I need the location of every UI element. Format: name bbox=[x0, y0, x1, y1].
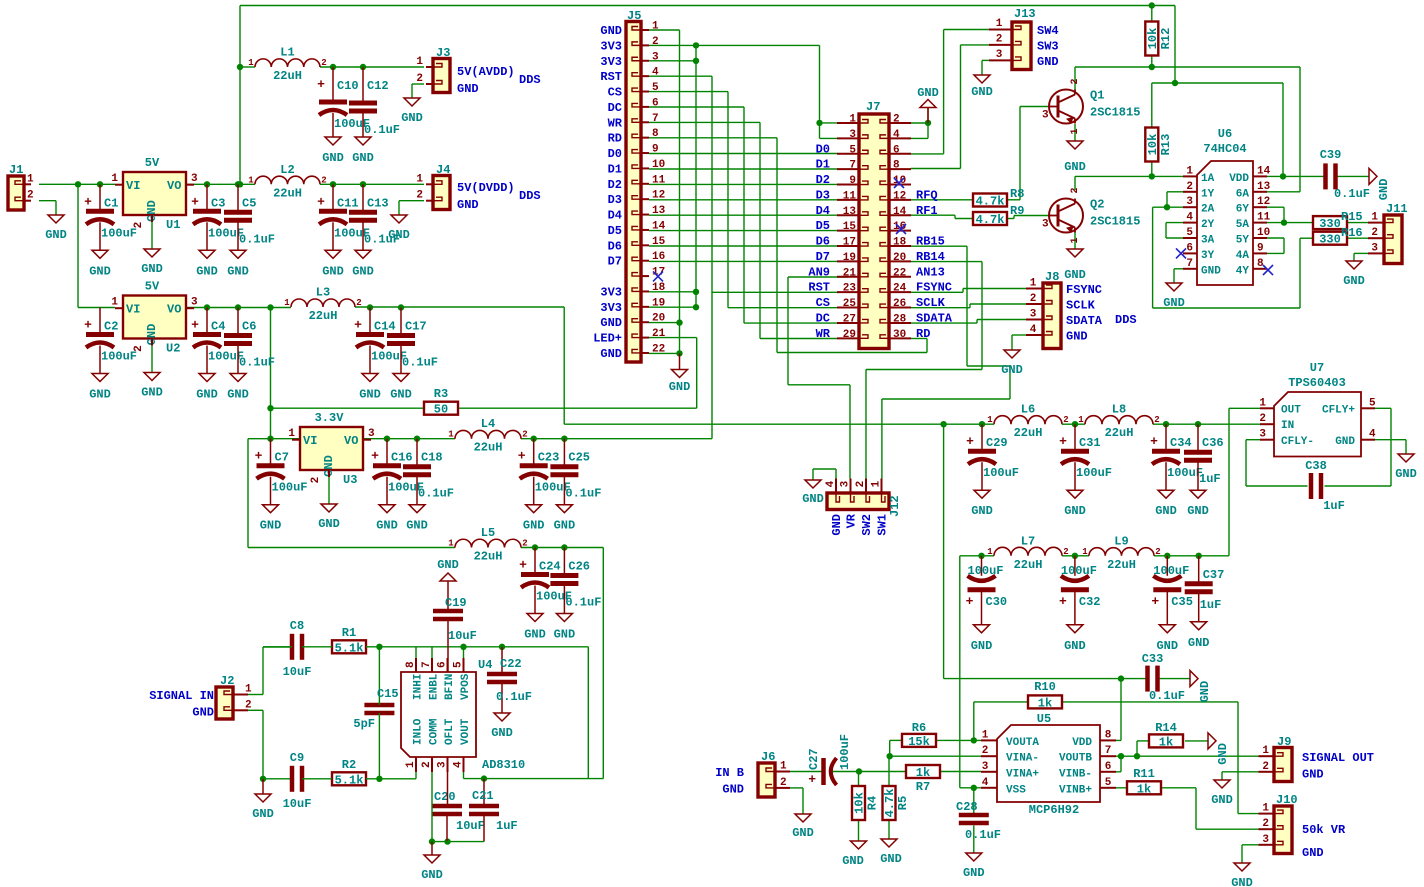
svg-text:C35: C35 bbox=[1171, 595, 1193, 609]
svg-text:J2: J2 bbox=[220, 674, 234, 688]
svg-text:GND: GND bbox=[1163, 296, 1185, 310]
svg-text:2: 2 bbox=[1155, 547, 1160, 557]
svg-text:C3: C3 bbox=[211, 196, 225, 210]
svg-text:+: + bbox=[1059, 594, 1067, 609]
svg-text:C28: C28 bbox=[956, 800, 978, 814]
svg-text:R1: R1 bbox=[342, 626, 356, 640]
svg-text:1A: 1A bbox=[1201, 173, 1215, 185]
svg-text:4: 4 bbox=[1030, 324, 1037, 336]
svg-text:3: 3 bbox=[1042, 110, 1049, 122]
svg-text:Q1: Q1 bbox=[1090, 89, 1104, 103]
svg-text:5: 5 bbox=[1369, 397, 1376, 409]
svg-text:2: 2 bbox=[321, 58, 326, 68]
svg-text:3: 3 bbox=[368, 428, 375, 440]
svg-text:2: 2 bbox=[1262, 818, 1269, 830]
svg-text:SCLK: SCLK bbox=[1066, 299, 1096, 313]
svg-text:+: + bbox=[255, 449, 263, 464]
svg-text:GND: GND bbox=[141, 386, 163, 400]
svg-text:2: 2 bbox=[1186, 181, 1193, 193]
svg-text:12: 12 bbox=[1257, 196, 1270, 208]
svg-text:BFIN: BFIN bbox=[444, 674, 456, 700]
svg-text:24: 24 bbox=[893, 283, 907, 295]
svg-text:12: 12 bbox=[893, 190, 906, 202]
svg-text:1: 1 bbox=[1070, 237, 1081, 243]
svg-text:1uF: 1uF bbox=[1199, 472, 1221, 486]
svg-text:4: 4 bbox=[825, 480, 837, 487]
svg-text:VINA+: VINA+ bbox=[1006, 768, 1039, 780]
svg-text:GND: GND bbox=[1343, 274, 1365, 288]
svg-text:GND: GND bbox=[196, 264, 218, 278]
svg-text:J7: J7 bbox=[866, 100, 880, 114]
svg-text:GND: GND bbox=[322, 151, 344, 165]
svg-text:C32: C32 bbox=[1079, 595, 1101, 609]
svg-text:0.1uF: 0.1uF bbox=[239, 232, 275, 246]
svg-text:18: 18 bbox=[652, 282, 666, 294]
svg-text:GND: GND bbox=[192, 706, 214, 720]
svg-text:2: 2 bbox=[1154, 415, 1159, 425]
svg-text:5.1k: 5.1k bbox=[335, 641, 364, 655]
svg-text:C20: C20 bbox=[434, 790, 456, 804]
svg-text:22uH: 22uH bbox=[273, 186, 302, 200]
svg-text:25: 25 bbox=[843, 298, 857, 310]
svg-text:GND: GND bbox=[1395, 467, 1417, 481]
svg-text:CFLY+: CFLY+ bbox=[1322, 405, 1355, 417]
svg-text:6: 6 bbox=[437, 661, 449, 668]
svg-text:22uH: 22uH bbox=[474, 441, 503, 455]
svg-text:5V: 5V bbox=[145, 156, 160, 170]
svg-text:C24: C24 bbox=[539, 560, 561, 574]
svg-text:3V3: 3V3 bbox=[600, 55, 622, 69]
svg-text:C13: C13 bbox=[367, 196, 389, 210]
svg-text:GND: GND bbox=[260, 519, 282, 533]
svg-text:GND: GND bbox=[1198, 681, 1212, 703]
svg-text:10k: 10k bbox=[1146, 134, 1160, 156]
svg-text:22uH: 22uH bbox=[1014, 426, 1043, 440]
svg-text:3: 3 bbox=[1042, 219, 1049, 231]
svg-text:GND: GND bbox=[554, 628, 576, 642]
svg-text:2: 2 bbox=[416, 190, 423, 202]
svg-text:9: 9 bbox=[849, 175, 856, 187]
svg-text:C21: C21 bbox=[472, 789, 494, 803]
svg-text:1: 1 bbox=[996, 18, 1003, 30]
svg-text:0.1uF: 0.1uF bbox=[364, 123, 400, 137]
svg-text:3: 3 bbox=[840, 480, 852, 487]
svg-text:6: 6 bbox=[893, 144, 900, 156]
svg-text:C36: C36 bbox=[1202, 436, 1224, 450]
svg-text:GND: GND bbox=[1066, 330, 1088, 344]
svg-text:3: 3 bbox=[996, 49, 1003, 61]
svg-text:GND: GND bbox=[1188, 636, 1210, 650]
svg-text:RB15: RB15 bbox=[916, 235, 945, 249]
svg-text:3.3V: 3.3V bbox=[315, 411, 345, 425]
svg-text:19: 19 bbox=[843, 252, 856, 264]
svg-text:C14: C14 bbox=[374, 320, 396, 334]
svg-text:3V3: 3V3 bbox=[600, 301, 622, 315]
svg-text:DC: DC bbox=[608, 101, 622, 115]
svg-text:2: 2 bbox=[1262, 761, 1269, 773]
svg-text:GND: GND bbox=[600, 347, 622, 361]
svg-text:GND: GND bbox=[722, 783, 744, 797]
svg-text:20: 20 bbox=[893, 252, 906, 264]
svg-text:C25: C25 bbox=[568, 451, 590, 465]
svg-text:2: 2 bbox=[421, 761, 433, 768]
svg-text:10uF: 10uF bbox=[456, 819, 485, 833]
svg-text:C5: C5 bbox=[242, 196, 256, 210]
svg-text:C8: C8 bbox=[290, 619, 304, 633]
svg-text:15: 15 bbox=[652, 236, 666, 248]
svg-text:RD: RD bbox=[608, 132, 622, 146]
svg-text:1: 1 bbox=[248, 175, 254, 185]
svg-text:WR: WR bbox=[816, 327, 831, 341]
svg-text:1: 1 bbox=[1082, 547, 1088, 557]
svg-text:330: 330 bbox=[1319, 233, 1341, 247]
svg-text:1: 1 bbox=[987, 547, 993, 557]
svg-text:2SC1815: 2SC1815 bbox=[1090, 215, 1140, 229]
svg-text:6A: 6A bbox=[1236, 188, 1250, 200]
svg-text:OFLT: OFLT bbox=[444, 718, 456, 745]
svg-text:1: 1 bbox=[1262, 745, 1269, 757]
svg-text:R10: R10 bbox=[1034, 680, 1056, 694]
svg-text:3: 3 bbox=[1186, 196, 1193, 208]
svg-text:CS: CS bbox=[816, 296, 830, 310]
svg-text:14: 14 bbox=[893, 206, 907, 218]
svg-text:2: 2 bbox=[522, 539, 527, 549]
svg-text:5: 5 bbox=[652, 82, 659, 94]
svg-text:2: 2 bbox=[416, 73, 423, 85]
svg-text:1: 1 bbox=[27, 173, 34, 185]
svg-text:0.1uF: 0.1uF bbox=[565, 487, 601, 501]
svg-text:2: 2 bbox=[1371, 227, 1378, 239]
svg-text:DDS: DDS bbox=[519, 189, 541, 203]
svg-text:VINB-: VINB- bbox=[1059, 768, 1092, 780]
svg-text:GND: GND bbox=[669, 380, 691, 394]
svg-text:RB14: RB14 bbox=[916, 250, 945, 264]
svg-text:C38: C38 bbox=[1305, 459, 1327, 473]
svg-text:GND: GND bbox=[830, 514, 844, 536]
svg-text:GND: GND bbox=[1064, 268, 1086, 282]
svg-text:SDATA: SDATA bbox=[916, 311, 953, 325]
svg-text:4A: 4A bbox=[1236, 250, 1250, 262]
svg-text:1: 1 bbox=[416, 173, 423, 185]
svg-text:+: + bbox=[966, 594, 974, 609]
svg-text:1k: 1k bbox=[1038, 696, 1052, 710]
svg-text:16: 16 bbox=[652, 251, 665, 263]
svg-text:GND: GND bbox=[554, 519, 576, 533]
svg-text:4.7k: 4.7k bbox=[883, 789, 897, 818]
svg-text:8: 8 bbox=[1257, 258, 1264, 270]
svg-text:GND: GND bbox=[421, 868, 443, 882]
svg-text:4: 4 bbox=[893, 129, 900, 141]
svg-text:1: 1 bbox=[1259, 397, 1266, 409]
svg-text:5Y: 5Y bbox=[1236, 235, 1250, 247]
svg-text:2SC1815: 2SC1815 bbox=[1090, 106, 1140, 120]
svg-text:U3: U3 bbox=[343, 473, 357, 487]
svg-text:GND: GND bbox=[89, 388, 111, 402]
svg-text:MCP6H92: MCP6H92 bbox=[1029, 803, 1079, 817]
svg-text:GND: GND bbox=[457, 198, 479, 212]
svg-text:+: + bbox=[519, 558, 527, 573]
svg-text:GND: GND bbox=[524, 628, 546, 642]
svg-text:D3: D3 bbox=[816, 188, 830, 202]
svg-text:VO: VO bbox=[167, 303, 181, 317]
svg-text:2: 2 bbox=[133, 222, 145, 229]
svg-text:11: 11 bbox=[843, 190, 857, 202]
svg-text:100uF: 100uF bbox=[272, 481, 308, 495]
svg-text:GND: GND bbox=[390, 388, 412, 402]
svg-text:GND: GND bbox=[1302, 846, 1324, 860]
svg-text:RST: RST bbox=[808, 281, 830, 295]
svg-text:ENBL: ENBL bbox=[429, 673, 441, 700]
svg-text:3: 3 bbox=[1262, 834, 1269, 846]
svg-text:D3: D3 bbox=[608, 193, 622, 207]
svg-text:10: 10 bbox=[652, 159, 665, 171]
svg-text:C27: C27 bbox=[807, 748, 821, 770]
svg-text:J3: J3 bbox=[436, 46, 450, 60]
svg-text:GND: GND bbox=[1335, 436, 1355, 448]
svg-text:INLO: INLO bbox=[413, 718, 425, 745]
svg-text:+: + bbox=[808, 772, 816, 787]
svg-text:SCLK: SCLK bbox=[916, 296, 946, 310]
svg-text:1k: 1k bbox=[1137, 782, 1151, 796]
svg-text:22uH: 22uH bbox=[1107, 558, 1136, 572]
svg-text:2: 2 bbox=[245, 699, 252, 711]
svg-text:14: 14 bbox=[652, 220, 666, 232]
svg-text:1uF: 1uF bbox=[496, 819, 518, 833]
svg-text:VI: VI bbox=[126, 179, 140, 193]
svg-text:+: + bbox=[518, 449, 526, 464]
svg-text:100uF: 100uF bbox=[968, 564, 1004, 578]
svg-text:+: + bbox=[966, 434, 974, 449]
svg-text:TPS60403: TPS60403 bbox=[1288, 376, 1346, 390]
svg-text:100uF: 100uF bbox=[838, 734, 852, 770]
svg-text:R5: R5 bbox=[896, 796, 910, 810]
svg-text:GND: GND bbox=[352, 264, 374, 278]
svg-text:100uF: 100uF bbox=[1153, 564, 1189, 578]
svg-text:C11: C11 bbox=[337, 196, 359, 210]
svg-text:2: 2 bbox=[356, 298, 361, 308]
svg-text:9: 9 bbox=[1257, 242, 1264, 254]
svg-text:50k VR: 50k VR bbox=[1302, 823, 1346, 837]
svg-text:50: 50 bbox=[434, 403, 448, 417]
svg-text:GND: GND bbox=[1155, 504, 1177, 518]
svg-text:R13: R13 bbox=[1159, 134, 1173, 156]
svg-text:5: 5 bbox=[453, 661, 465, 668]
svg-text:22: 22 bbox=[652, 343, 665, 355]
svg-text:1Y: 1Y bbox=[1201, 188, 1215, 200]
svg-text:GND: GND bbox=[457, 82, 479, 96]
svg-text:GND: GND bbox=[1201, 265, 1221, 277]
svg-text:12: 12 bbox=[652, 190, 665, 202]
svg-text:+: + bbox=[317, 77, 325, 92]
svg-text:R11: R11 bbox=[1133, 767, 1155, 781]
svg-text:2: 2 bbox=[982, 745, 989, 757]
svg-text:+: + bbox=[354, 318, 362, 333]
svg-text:GND: GND bbox=[89, 264, 111, 278]
svg-text:22uH: 22uH bbox=[1105, 426, 1134, 440]
svg-text:2: 2 bbox=[1259, 413, 1266, 425]
svg-text:+: + bbox=[84, 318, 92, 333]
svg-text:C12: C12 bbox=[367, 79, 389, 93]
svg-text:3A: 3A bbox=[1201, 235, 1215, 247]
svg-text:GND: GND bbox=[1216, 743, 1230, 765]
svg-text:R3: R3 bbox=[434, 387, 448, 401]
svg-text:L9: L9 bbox=[1114, 534, 1128, 548]
svg-text:1: 1 bbox=[1371, 212, 1378, 224]
svg-text:GND: GND bbox=[1231, 876, 1253, 887]
svg-text:2: 2 bbox=[133, 345, 145, 352]
svg-text:3: 3 bbox=[437, 761, 449, 768]
svg-text:GND: GND bbox=[318, 517, 340, 531]
svg-text:+: + bbox=[191, 194, 199, 209]
svg-text:9: 9 bbox=[652, 144, 659, 156]
svg-text:5.1k: 5.1k bbox=[335, 773, 364, 787]
svg-text:VI: VI bbox=[303, 434, 317, 448]
svg-text:+: + bbox=[191, 318, 199, 333]
svg-text:J10: J10 bbox=[1276, 793, 1298, 807]
svg-text:28: 28 bbox=[893, 313, 907, 325]
svg-text:6: 6 bbox=[652, 97, 659, 109]
svg-text:GND: GND bbox=[971, 639, 993, 653]
svg-text:14: 14 bbox=[1257, 165, 1271, 177]
svg-text:SIGNAL IN: SIGNAL IN bbox=[149, 689, 214, 703]
svg-text:D6: D6 bbox=[816, 235, 830, 249]
svg-text:1: 1 bbox=[405, 761, 417, 768]
svg-text:5: 5 bbox=[1105, 777, 1112, 789]
svg-text:2: 2 bbox=[1030, 293, 1037, 305]
svg-text:2: 2 bbox=[652, 36, 659, 48]
svg-text:GND: GND bbox=[406, 519, 428, 533]
svg-text:5V: 5V bbox=[145, 280, 160, 294]
svg-text:J4: J4 bbox=[436, 163, 450, 177]
svg-text:FSYNC: FSYNC bbox=[916, 281, 952, 295]
svg-text:4: 4 bbox=[982, 777, 989, 789]
svg-text:J13: J13 bbox=[1014, 7, 1036, 21]
svg-text:GND: GND bbox=[842, 854, 864, 868]
svg-text:13: 13 bbox=[843, 206, 857, 218]
svg-text:3V3: 3V3 bbox=[600, 285, 622, 299]
svg-text:30: 30 bbox=[893, 329, 906, 341]
svg-text:+: + bbox=[1151, 594, 1159, 609]
svg-text:RST: RST bbox=[600, 70, 622, 84]
svg-text:8: 8 bbox=[1105, 729, 1112, 741]
svg-text:IN B: IN B bbox=[715, 766, 744, 780]
svg-text:3: 3 bbox=[1259, 429, 1266, 441]
svg-text:C7: C7 bbox=[275, 451, 289, 465]
svg-text:C10: C10 bbox=[337, 79, 359, 93]
svg-text:2: 2 bbox=[996, 33, 1003, 45]
svg-text:VO: VO bbox=[344, 434, 358, 448]
svg-text:VINB+: VINB+ bbox=[1059, 784, 1092, 796]
svg-text:26: 26 bbox=[893, 298, 906, 310]
svg-text:D5: D5 bbox=[816, 219, 830, 233]
svg-text:COMM: COMM bbox=[429, 718, 441, 745]
svg-text:5: 5 bbox=[1186, 227, 1193, 239]
svg-text:VR: VR bbox=[845, 513, 859, 528]
svg-text:2A: 2A bbox=[1201, 204, 1215, 216]
svg-text:+: + bbox=[371, 449, 379, 464]
svg-text:27: 27 bbox=[843, 313, 856, 325]
svg-text:0.1uF: 0.1uF bbox=[565, 596, 601, 610]
svg-text:C22: C22 bbox=[500, 657, 522, 671]
svg-text:GND: GND bbox=[523, 519, 545, 533]
svg-text:D2: D2 bbox=[608, 178, 622, 192]
svg-text:4Y: 4Y bbox=[1236, 265, 1250, 277]
svg-text:1: 1 bbox=[871, 480, 883, 487]
svg-text:C16: C16 bbox=[391, 451, 413, 465]
svg-text:C26: C26 bbox=[568, 560, 590, 574]
svg-text:8: 8 bbox=[652, 128, 659, 140]
svg-text:FSYNC: FSYNC bbox=[1066, 283, 1102, 297]
svg-text:GND: GND bbox=[792, 826, 814, 840]
svg-text:VOUTA: VOUTA bbox=[1006, 737, 1039, 749]
svg-text:R14: R14 bbox=[1155, 721, 1177, 735]
svg-text:C31: C31 bbox=[1079, 436, 1101, 450]
svg-text:100uF: 100uF bbox=[101, 350, 137, 364]
svg-text:19: 19 bbox=[652, 297, 665, 309]
svg-text:0.1uF: 0.1uF bbox=[418, 487, 454, 501]
svg-text:1: 1 bbox=[1070, 128, 1081, 134]
svg-text:+: + bbox=[1150, 434, 1158, 449]
svg-text:J11: J11 bbox=[1386, 202, 1408, 216]
svg-text:U6: U6 bbox=[1218, 127, 1232, 141]
svg-text:R9: R9 bbox=[1010, 204, 1024, 218]
svg-text:+: + bbox=[317, 194, 325, 209]
svg-text:1: 1 bbox=[652, 21, 659, 33]
svg-text:AD8310: AD8310 bbox=[482, 758, 525, 772]
svg-text:GND: GND bbox=[401, 111, 423, 125]
svg-text:5: 5 bbox=[849, 144, 856, 156]
svg-text:11: 11 bbox=[1257, 212, 1271, 224]
svg-text:4: 4 bbox=[1186, 212, 1193, 224]
svg-text:4: 4 bbox=[652, 67, 659, 79]
svg-text:6: 6 bbox=[1186, 242, 1193, 254]
svg-text:SIGNAL OUT: SIGNAL OUT bbox=[1302, 751, 1374, 765]
svg-text:GND: GND bbox=[437, 558, 459, 572]
svg-text:OUT: OUT bbox=[1281, 405, 1301, 417]
svg-text:7: 7 bbox=[849, 160, 856, 172]
svg-text:1: 1 bbox=[1186, 165, 1193, 177]
svg-text:VI: VI bbox=[126, 303, 140, 317]
svg-text:22uH: 22uH bbox=[273, 69, 302, 83]
svg-text:DDS: DDS bbox=[1115, 313, 1137, 327]
svg-text:2: 2 bbox=[893, 114, 900, 126]
svg-text:VDD: VDD bbox=[1229, 173, 1249, 185]
svg-text:5V(AVDD): 5V(AVDD) bbox=[457, 65, 515, 79]
svg-text:100uF: 100uF bbox=[101, 226, 137, 240]
svg-text:3: 3 bbox=[652, 51, 659, 63]
svg-text:VO: VO bbox=[167, 179, 181, 193]
svg-text:U7: U7 bbox=[1310, 361, 1324, 375]
svg-text:J8: J8 bbox=[1045, 270, 1059, 284]
svg-text:0.1uF: 0.1uF bbox=[1334, 187, 1370, 201]
svg-text:GND: GND bbox=[388, 228, 410, 242]
svg-text:R12: R12 bbox=[1159, 28, 1173, 50]
svg-text:1: 1 bbox=[780, 761, 787, 773]
svg-text:GND: GND bbox=[1211, 793, 1233, 807]
svg-text:3: 3 bbox=[849, 129, 856, 141]
svg-text:13: 13 bbox=[652, 205, 666, 217]
svg-text:SW4: SW4 bbox=[1037, 24, 1059, 38]
svg-text:8: 8 bbox=[405, 661, 417, 668]
svg-text:J5: J5 bbox=[627, 9, 641, 23]
svg-text:GND: GND bbox=[1064, 639, 1086, 653]
svg-text:GND: GND bbox=[971, 504, 993, 518]
svg-text:GND: GND bbox=[1001, 363, 1023, 377]
svg-text:R6: R6 bbox=[912, 721, 926, 735]
svg-text:C1: C1 bbox=[104, 196, 118, 210]
svg-text:R15: R15 bbox=[1341, 210, 1363, 224]
svg-text:2: 2 bbox=[855, 481, 867, 488]
